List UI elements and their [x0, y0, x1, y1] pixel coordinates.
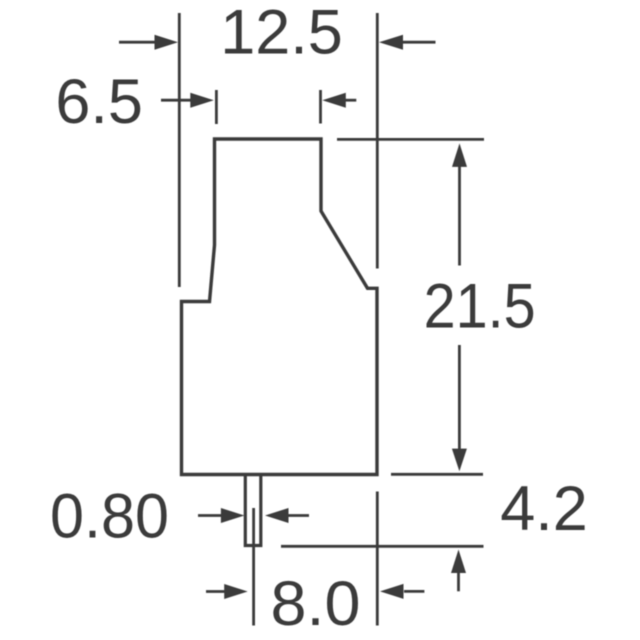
svg-text:0.80: 0.80 [50, 482, 169, 552]
svg-text:6.5: 6.5 [55, 67, 143, 137]
svg-text:4.2: 4.2 [500, 474, 588, 544]
svg-text:21.5: 21.5 [424, 272, 536, 342]
svg-text:8.0: 8.0 [271, 569, 361, 639]
svg-text:12.5: 12.5 [220, 0, 343, 68]
